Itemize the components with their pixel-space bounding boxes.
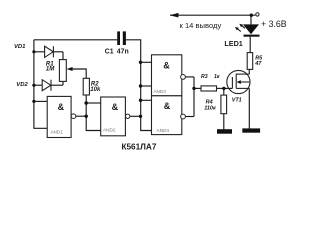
node VD2 junction	[32, 84, 35, 87]
wire gate4 input 1	[141, 99, 152, 101]
svg-text:VT1: VT1	[232, 97, 242, 103]
wire LED anode	[250, 15, 252, 24]
wire R1 bottom lead	[62, 81, 64, 85]
svg-text:110к: 110к	[204, 106, 217, 112]
wire R4 top lead	[223, 88, 225, 95]
wire left vertical rail	[34, 40, 47, 129]
wire R3 to gate node	[217, 87, 233, 89]
wire R1 wiper to R2	[72, 69, 86, 78]
capacitor C1	[117, 31, 120, 45]
svg-text:+ 3.6В: + 3.6В	[261, 19, 287, 29]
wire gate1 input 1	[34, 100, 47, 102]
ground under R4	[217, 129, 232, 134]
svg-text:1M: 1M	[46, 67, 55, 73]
svg-text:VD1: VD1	[14, 44, 25, 50]
wiper arrow R1	[67, 67, 73, 71]
svg-text:AND1: AND1	[50, 130, 63, 135]
wire gate3 inputs	[141, 61, 152, 63]
wire gate3 output	[185, 76, 194, 78]
gate U1.1	[47, 96, 76, 137]
wire gate2 output	[130, 115, 141, 117]
wire gate1 output	[76, 115, 86, 117]
svg-text:VD2: VD2	[16, 82, 28, 88]
wire R2 bottom to gate2 inputs	[86, 95, 101, 131]
gate U1.2	[101, 97, 130, 136]
svg-text:47: 47	[254, 61, 262, 67]
svg-text:47n: 47n	[117, 49, 129, 56]
svg-text:&: &	[163, 61, 170, 71]
wire VT1 source to ground	[248, 88, 250, 128]
svg-text:R4: R4	[206, 100, 213, 106]
svg-text:C1: C1	[105, 49, 114, 56]
svg-text:10k: 10k	[90, 87, 101, 93]
node rail dots	[139, 61, 142, 64]
potentiometer R1	[59, 60, 66, 82]
node R3/R4/gate junction	[222, 87, 225, 90]
svg-text:&: &	[58, 102, 65, 112]
svg-text:1к: 1к	[214, 74, 220, 80]
wire VT1 drain to R5	[248, 69, 250, 74]
wire VD2 branch	[34, 84, 42, 86]
wire rail to R3	[194, 87, 201, 89]
ground under VT1	[242, 128, 260, 132]
gate U1.3	[152, 55, 186, 96]
node outputs rail junction	[192, 87, 195, 90]
node R2 bottom junction	[84, 101, 88, 105]
wire paralleled outputs rail	[193, 77, 195, 117]
svg-text:К561ЛА7: К561ЛА7	[122, 142, 157, 151]
wire R4 bottom lead	[223, 114, 225, 130]
diode VD2	[42, 80, 51, 91]
resistor R4	[221, 95, 227, 114]
resistor R5	[247, 53, 253, 70]
svg-text:&: &	[112, 102, 119, 112]
LED1	[235, 24, 260, 37]
svg-text:AND2: AND2	[103, 128, 116, 133]
svg-text:AND3: AND3	[153, 89, 166, 94]
wire left loop top rail	[34, 39, 117, 41]
resistor R3	[201, 86, 217, 91]
wire top supply annotation line	[170, 14, 255, 16]
svg-text:&: &	[164, 101, 171, 111]
resistor R2	[83, 78, 89, 95]
node gate1 output junction	[85, 115, 88, 118]
svg-text:к 14 выводу: к 14 выводу	[180, 21, 222, 30]
node supply junction	[250, 14, 253, 17]
svg-text:R3: R3	[201, 74, 208, 80]
node gate1 input junction	[32, 100, 35, 103]
transistor VT1	[227, 70, 250, 93]
arrow to pin 14	[170, 13, 179, 18]
wire gate4 output	[185, 116, 194, 118]
diode VD1	[45, 46, 54, 57]
wire LED cathode to R5	[249, 37, 251, 53]
wire VD1 branch	[34, 51, 45, 53]
wire C1 right to rail corner	[126, 40, 152, 131]
terminal +3.6V	[256, 13, 259, 16]
svg-text:AND4: AND4	[156, 128, 169, 133]
node VD1 junction	[32, 50, 35, 53]
svg-text:LED1: LED1	[224, 39, 242, 48]
gate U1.4	[152, 96, 186, 135]
